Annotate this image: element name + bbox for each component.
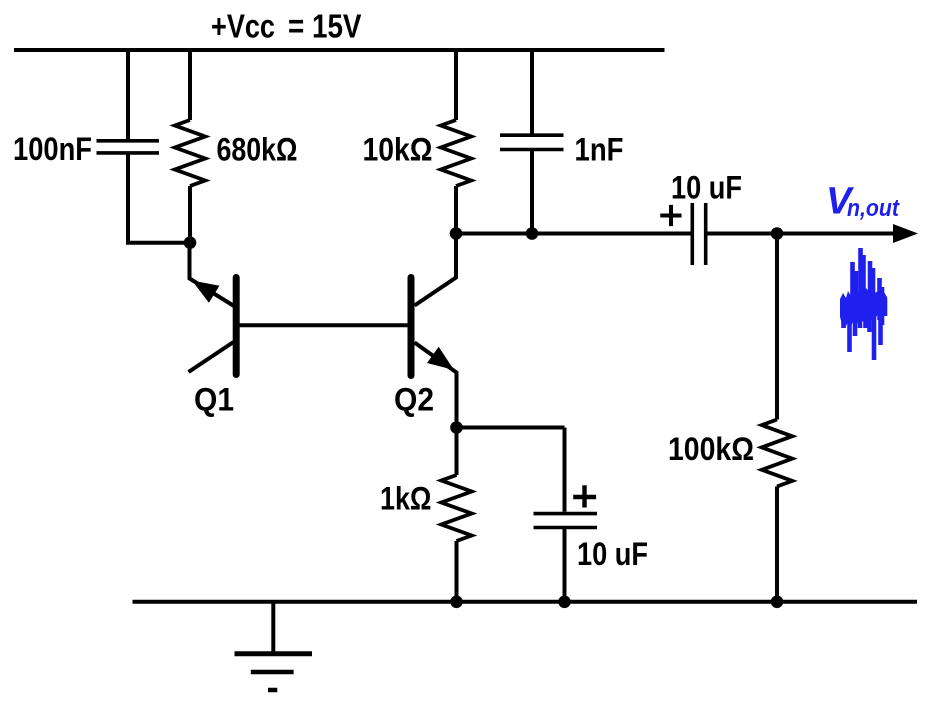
output node dot: [771, 227, 784, 240]
svg-text:Q2: Q2: [394, 382, 434, 418]
transistor Q1 bar: [233, 278, 240, 375]
rail node dot 10uF2: [558, 596, 571, 609]
plus sign 10uF output: [660, 205, 681, 226]
node A junction dot: [184, 236, 197, 249]
output arrowhead: [893, 224, 918, 243]
svg-text:1nF: 1nF: [575, 132, 624, 168]
svg-text:+Vcc: +Vcc: [211, 8, 275, 45]
resistor R 680k: [175, 120, 205, 186]
collector node dot: [450, 227, 463, 240]
transistor Q2 bar: [408, 278, 415, 376]
wire Q1 emitter: [190, 243, 235, 306]
wire base link Q1-Q2: [236, 323, 411, 327]
wire 10k bottom to collector node: [454, 186, 458, 234]
wire 10k branch top: [454, 50, 458, 120]
wire 680k bottom to node A: [188, 186, 192, 243]
svg-text:10 uF: 10 uF: [577, 536, 648, 572]
capacitor 1nF plates: [500, 135, 564, 149]
1nF node dot: [526, 227, 539, 240]
wire 100nF branch bottom to node A: [128, 153, 190, 243]
plus sign 10uF emitter: [573, 485, 596, 507]
wire emitter node to 10uF2 branch: [457, 426, 565, 430]
wire 680k branch top: [188, 50, 192, 120]
wire 100k bottom to rail: [775, 487, 779, 602]
resistor R 10k: [441, 120, 471, 186]
svg-text:10 uF: 10 uF: [671, 170, 742, 206]
svg-text:680kΩ: 680kΩ: [217, 131, 298, 167]
ground rail: [133, 600, 918, 604]
svg-text:1kΩ: 1kΩ: [380, 481, 432, 517]
wire ground stem: [271, 602, 275, 654]
rail node dot 1k: [450, 596, 463, 609]
ground bar 1: [235, 651, 313, 656]
wire Q1 collector: [189, 342, 234, 372]
wire 100nF branch top: [126, 50, 130, 140]
wire 1nF branch top: [530, 50, 534, 134]
wire 10uF2 branch top: [563, 428, 567, 512]
Vcc rail: [14, 48, 665, 52]
svg-text:10kΩ: 10kΩ: [363, 132, 433, 168]
ground bar 2: [251, 670, 294, 675]
capacitor 10uF emitter plates: [534, 514, 598, 528]
rail node dot 100k: [771, 596, 784, 609]
transistor Q2 emitter arrow: [427, 347, 454, 370]
capacitor 10uF output plates: [692, 203, 705, 265]
wire Q2 collector: [415, 234, 457, 306]
svg-text:100nF: 100nF: [13, 131, 92, 167]
wire output to 10uF cap: [456, 232, 691, 236]
ground bar 3: [268, 688, 277, 693]
capacitor 100nF plates: [97, 141, 160, 153]
resistor R 1k: [441, 475, 471, 541]
emitter node dot: [450, 421, 463, 434]
wire 10uF2 bottom to rail: [563, 528, 567, 602]
svg-text:100kΩ: 100kΩ: [668, 431, 754, 467]
svg-text:Q1: Q1: [194, 382, 234, 418]
wire Q2 emitter: [415, 343, 457, 428]
wire output node down to 100k: [775, 234, 779, 420]
wire 1k bottom to rail: [455, 541, 459, 602]
noise waveform: [840, 248, 887, 360]
resistor R 100k: [762, 420, 792, 487]
wire 1k branch top: [455, 428, 459, 476]
wire 1nF bottom to output wire: [530, 151, 534, 234]
wire 10uF cap to arrow: [708, 232, 897, 236]
transistor Q1 emitter arrow: [192, 281, 219, 303]
svg-text:= 15V: = 15V: [288, 8, 362, 45]
svg-text:n,out: n,out: [847, 195, 900, 222]
